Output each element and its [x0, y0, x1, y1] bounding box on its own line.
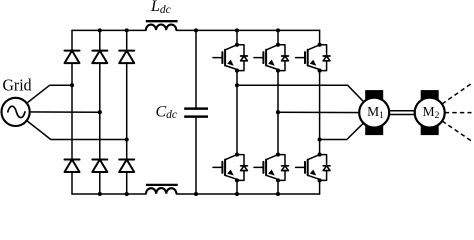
- wire inverter leg 2 bottom: [277, 180, 279, 194]
- wire bottom rail right: [176, 193, 319, 195]
- junction capacitor bottom: [194, 192, 198, 196]
- wire top rail right: [176, 29, 319, 31]
- capacitor C_dc: [184, 107, 208, 110]
- junction capacitor top: [194, 28, 198, 32]
- junction grid phase c tap: [125, 137, 129, 141]
- wire inverter leg 2 middle: [277, 71, 279, 155]
- motor M2: [415, 98, 445, 128]
- diode D10 (antiparallel): [278, 155, 285, 166]
- junction top rail phase b: [98, 28, 102, 32]
- junction bottom rail leg 2: [276, 192, 280, 196]
- wire phase C output: [320, 113, 375, 140]
- wire rectifier phase b vertical: [99, 63, 101, 159]
- wire diode top lead phase a: [71, 30, 73, 50]
- junction Q4 collector/emitter nodes: [276, 153, 280, 157]
- AC source: grid supply: [2, 98, 30, 126]
- junction top rail phase c: [125, 28, 129, 32]
- junction grid phase a tap: [70, 83, 74, 87]
- dashed continuation lines from M2: [442, 84, 472, 105]
- wire inverter leg 3 middle: [319, 71, 321, 155]
- wire grid phase c: [16, 112, 127, 140]
- motor M1: [359, 98, 389, 128]
- shaft coupling M1-M2: [389, 110, 415, 112]
- diode D2 (rectifier bottom, phase a): [65, 159, 80, 161]
- junction bottom rail leg 1: [235, 192, 239, 196]
- junction phase A tap: [235, 83, 239, 87]
- junction grid phase b tap: [98, 110, 102, 114]
- wire bottom rail left: [72, 193, 146, 195]
- diode D6 (rectifier bottom, phase c): [119, 159, 134, 161]
- transistor Q1 (IGBT): [225, 45, 237, 50]
- junction Q6 collector/emitter nodes: [318, 153, 322, 157]
- wire inverter leg 3 top: [319, 30, 321, 44]
- diode D7 (antiparallel): [237, 45, 244, 56]
- wire phase B output: [278, 111, 374, 113]
- junction bottom rail phase b: [98, 192, 102, 196]
- junction phase C tap: [318, 137, 322, 141]
- wire rectifier phase a vertical: [71, 63, 73, 159]
- transistor Q5 (IGBT): [308, 45, 320, 50]
- diode D9 (antiparallel): [278, 45, 285, 56]
- diode D3 (rectifier top, phase b): [92, 50, 107, 52]
- wire capacitor top lead: [195, 30, 197, 107]
- diode D1 (rectifier top, phase a): [65, 50, 80, 52]
- diode D4 (rectifier bottom, phase b): [92, 159, 107, 161]
- inductor L_dc return (bottom): [146, 188, 176, 194]
- svg-text:Grid: Grid: [3, 75, 32, 94]
- diode D8 (antiparallel): [237, 155, 244, 166]
- transistor Q2 (IGBT): [225, 155, 237, 160]
- motor M2 terminal blocks: [421, 90, 439, 101]
- junction Q3 collector/emitter nodes: [276, 43, 280, 47]
- wire inverter leg 1 middle: [236, 71, 238, 155]
- diode D12 (antiparallel): [320, 155, 327, 166]
- wire rectifier phase c vertical: [126, 63, 128, 159]
- wire top rail left: [72, 29, 146, 31]
- diode D5 (rectifier top, phase c): [119, 50, 134, 52]
- junction Q1 collector/emitter nodes: [235, 43, 239, 47]
- transistor Q3 (IGBT): [266, 45, 278, 50]
- wire diode top lead phase c: [126, 30, 128, 50]
- wire inverter leg 2 top: [277, 30, 279, 44]
- junction Q2 collector/emitter nodes: [235, 153, 239, 157]
- diode D11 (antiparallel): [320, 45, 327, 56]
- junction top rail leg 2: [276, 28, 280, 32]
- wire diode bottom lead phase a: [71, 172, 73, 194]
- wire grid phase a: [16, 85, 72, 112]
- junction phase B tap: [276, 110, 280, 114]
- transistor Q4 (IGBT): [266, 155, 278, 160]
- wire diode bottom lead phase c: [126, 172, 128, 194]
- wire phase A output: [237, 85, 374, 112]
- junction Q5 collector/emitter nodes: [318, 43, 322, 47]
- wire inverter leg 1 bottom: [236, 180, 238, 194]
- motor M1 terminal blocks: [365, 90, 383, 101]
- wire diode top lead phase b: [99, 30, 101, 50]
- wire capacitor bottom lead: [195, 118, 197, 194]
- wire inverter leg 1 top: [236, 30, 238, 44]
- wire grid phase b: [16, 111, 100, 113]
- junction bottom rail phase c: [125, 192, 129, 196]
- junction top rail leg 1: [235, 28, 239, 32]
- transistor Q6 (IGBT): [308, 155, 320, 160]
- wire diode bottom lead phase b: [99, 172, 101, 194]
- wire inverter leg 3 bottom: [319, 180, 321, 194]
- inductor L_dc: [146, 25, 176, 31]
